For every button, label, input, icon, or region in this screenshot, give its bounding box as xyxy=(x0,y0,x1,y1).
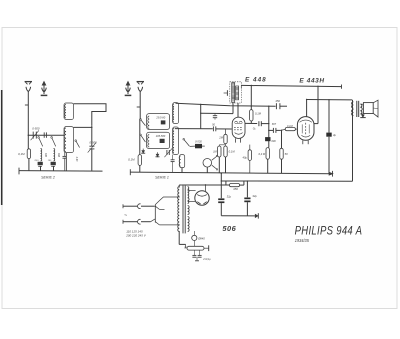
resistor 2M xyxy=(224,134,227,143)
wave switch S1a xyxy=(38,137,40,139)
wire antenna A2 down xyxy=(139,91,141,119)
svg-text:2×0,1μ: 2×0,1μ xyxy=(202,258,211,261)
wire into heater resistor xyxy=(185,244,187,248)
wire coil101 to bus xyxy=(181,168,183,173)
V2 pins xyxy=(302,140,304,144)
svg-text:SERIE 2: SERIE 2 xyxy=(41,175,55,179)
resistor 0,1M bias xyxy=(224,146,227,157)
capacitor 4u tone xyxy=(326,133,331,137)
svg-text:E 448: E 448 xyxy=(245,76,267,83)
svg-text:40μ: 40μ xyxy=(243,155,248,159)
ground arrow g2 xyxy=(157,152,159,156)
resistor 0,1M (aerial leak) xyxy=(27,149,30,159)
V1 cathode xyxy=(235,133,243,135)
aerial coil L3 upper xyxy=(64,103,74,120)
aerial coil L4 lower xyxy=(64,127,74,153)
core mark box2 xyxy=(160,139,165,143)
wire tuning cap to bus xyxy=(91,126,93,146)
svg-text:636: 636 xyxy=(44,153,47,158)
speaker cone xyxy=(373,100,378,117)
svg-text:200 220 245 V: 200 220 245 V xyxy=(125,234,147,238)
wire transformer bottom lead xyxy=(178,231,180,244)
wire 0,4M to bus xyxy=(267,159,269,173)
power transformer secondary xyxy=(188,187,189,204)
wire antenna lead to resistor xyxy=(27,135,29,149)
speaker magnet xyxy=(363,103,373,114)
capacitor 32u no2 xyxy=(244,198,250,200)
antenna socket A1 xyxy=(25,81,32,83)
svg-text:600: 600 xyxy=(272,140,277,143)
tuning coil column lower xyxy=(173,127,179,155)
iron core L1 xyxy=(38,162,43,165)
wave switch S2a xyxy=(140,119,142,121)
bus end connector xyxy=(332,171,334,177)
junction link xyxy=(219,144,225,146)
svg-text:4-90: 4-90 xyxy=(75,157,78,162)
capacitor on avc line xyxy=(213,115,217,117)
ground arrow g1 xyxy=(142,149,144,153)
coil 101 xyxy=(180,155,185,168)
wire avc line xyxy=(201,112,233,114)
wire V1 anode xyxy=(245,122,257,124)
output transformer secondary xyxy=(360,104,362,114)
resistor 40u cathode xyxy=(248,150,251,161)
wire secondary to 506 lower xyxy=(188,200,196,202)
power transformer core xyxy=(182,186,184,234)
tuning coil column upper xyxy=(173,103,179,124)
svg-text:506: 506 xyxy=(222,224,236,233)
antenna socket A2 xyxy=(137,81,144,83)
capacitor 50 series xyxy=(212,126,214,131)
svg-text:29,5: 29,5 xyxy=(33,160,39,162)
resistor 0,4M xyxy=(266,148,269,160)
wire 0,1Mb to bus xyxy=(225,157,227,173)
power transformer primary xyxy=(178,187,180,232)
scan artifact line (page edge) xyxy=(1,90,3,205)
capacitor 600 (block) xyxy=(265,137,270,141)
capacitor 32u no1 xyxy=(218,198,224,200)
wire HT line lower (y185) xyxy=(182,184,230,186)
wire resistor to bus xyxy=(28,159,30,171)
wire 506 top xyxy=(205,185,207,191)
trimmer capacitor on aerial wire xyxy=(43,132,45,137)
capacitor Gr (anode coupling) xyxy=(258,121,260,126)
svg-text:0-500: 0-500 xyxy=(32,127,40,131)
svg-text:Gr,: Gr, xyxy=(253,127,257,130)
wire cap1 to ground rail xyxy=(220,203,222,216)
svg-text:0,1M: 0,1M xyxy=(128,157,135,161)
V2 top dome xyxy=(300,120,312,122)
wire circle to bus xyxy=(206,167,208,173)
rectifier tube 506 xyxy=(195,191,209,205)
svg-text:2M: 2M xyxy=(218,136,223,140)
resistor 0,1M anode load xyxy=(250,110,253,121)
IF trimmer xyxy=(224,92,228,94)
V1 grid dashes xyxy=(234,126,242,128)
wire HT screen line (y86) xyxy=(241,85,341,86)
svg-text:32μ: 32μ xyxy=(227,194,232,198)
wire to resistor 50 xyxy=(281,130,283,148)
iron core L2 xyxy=(51,162,56,165)
wire coil L4 top tap xyxy=(74,126,92,128)
variable capacitor gang2 xyxy=(166,150,168,155)
wire tone cap line xyxy=(328,100,330,133)
wire coil L3 top to tuning line (Z-step) xyxy=(74,104,107,126)
output transformer primary xyxy=(352,102,354,108)
wire grid line top xyxy=(176,103,276,106)
connector tick on antenna lead xyxy=(25,104,28,106)
oscillator coil box 29,5-80 xyxy=(147,114,170,130)
wire secondary to 506 upper xyxy=(188,190,196,192)
svg-text:0,4 M: 0,4 M xyxy=(258,152,265,156)
svg-text:807: 807 xyxy=(272,123,277,126)
coil L2 (band B) xyxy=(54,149,55,162)
dial lamp O840 xyxy=(192,235,197,240)
wire cap to node xyxy=(261,123,269,125)
svg-text:195-580: 195-580 xyxy=(156,134,166,138)
svg-text:SERIE 1: SERIE 1 xyxy=(155,176,169,180)
V1 pins xyxy=(234,138,236,142)
variable capacitor 0-500 (tuning gang 1) xyxy=(89,145,94,147)
wire AF node vertical xyxy=(268,106,270,147)
resistor heater dropper xyxy=(187,246,204,250)
506 anode cup xyxy=(197,195,207,197)
earth socket E2 xyxy=(127,84,129,94)
capacitor 807 series xyxy=(272,128,274,133)
wire cap2 to ground rail xyxy=(246,202,248,216)
wire HT rail upper (y181) xyxy=(221,180,352,182)
svg-text:PHILIPS 944 A: PHILIPS 944 A xyxy=(295,225,363,238)
IF transformer shield box (dashed) xyxy=(230,82,242,103)
wire HT riser to output transformer xyxy=(352,100,354,115)
core mark box1 xyxy=(161,120,166,124)
wave switch S1b xyxy=(51,137,53,139)
oscillator coil box 195-580 xyxy=(147,132,170,148)
ground bus SERIE 2 xyxy=(19,170,103,173)
title PHILIPS 944 A xyxy=(295,225,363,238)
variable capacitor 0-500 (aerial trim) xyxy=(32,132,34,139)
svg-text:0,1M: 0,1M xyxy=(18,152,25,156)
trimmer capacitor C-trim xyxy=(63,155,67,157)
wire speaker top xyxy=(361,103,364,105)
chassis arrow xyxy=(255,215,257,217)
V1 screen structure xyxy=(234,121,242,122)
PSU ground rail xyxy=(221,215,255,217)
mains lead 1 xyxy=(123,205,137,207)
wire resistor to bus s1 xyxy=(139,165,141,172)
wire IF secondary to V1 grid cap xyxy=(237,103,239,118)
wire HT drop cap2 xyxy=(246,181,248,197)
wire 1M to bus xyxy=(218,157,220,173)
subtitle 1934/35 xyxy=(295,237,310,242)
coil L1 (band A) xyxy=(41,149,42,162)
IF primary winding xyxy=(232,83,235,103)
output transformer core xyxy=(356,101,358,117)
svg-text:450: 450 xyxy=(275,99,280,103)
svg-text:Ø840: Ø840 xyxy=(197,236,205,240)
svg-text:0-530: 0-530 xyxy=(195,140,202,144)
selector tap mid xyxy=(159,208,164,210)
mains lead 2 xyxy=(123,221,137,223)
V2 cathode xyxy=(301,135,310,137)
earth socket E1 xyxy=(43,84,45,94)
oscillator padding circle xyxy=(203,159,212,168)
resistor 450 smoothing xyxy=(229,184,239,187)
V2 grid column xyxy=(305,123,307,134)
padder capacitor 0-530 xyxy=(195,144,202,148)
resistor 0,1M grid leak xyxy=(138,155,141,166)
selector tap top xyxy=(155,197,180,205)
ground under output transformer xyxy=(362,114,364,116)
tube V1 E448 envelope xyxy=(232,117,245,138)
wire dropper out xyxy=(204,247,209,249)
svg-text:50: 50 xyxy=(285,152,288,156)
IF secondary winding xyxy=(236,86,239,100)
svg-text:695: 695 xyxy=(57,153,60,158)
wire antenna A1 down xyxy=(27,91,29,135)
svg-text:E 443H: E 443H xyxy=(299,77,324,84)
plug contact 1 xyxy=(138,204,141,209)
switch S2c xyxy=(184,140,190,147)
svg-text:0,1M: 0,1M xyxy=(255,112,262,116)
svg-text:0,1M: 0,1M xyxy=(229,149,236,153)
506 filament marks xyxy=(197,202,206,204)
svg-text:32μ: 32μ xyxy=(252,194,257,198)
switch S1c xyxy=(75,140,77,142)
wire screen drop xyxy=(317,86,319,123)
capacitor pair 2x heater bypass xyxy=(192,254,196,256)
wire anode res bottom xyxy=(250,121,252,124)
svg-text:0,1M: 0,1M xyxy=(287,125,293,128)
selector tap bottom xyxy=(159,224,179,226)
wire primary top to HT line xyxy=(178,185,180,188)
wire HT to anode resistor xyxy=(250,86,252,110)
wire coil L4 to bus xyxy=(65,153,67,171)
wire osc tap vertical xyxy=(200,105,202,129)
junction dots xyxy=(251,105,252,106)
wire r50 to bus xyxy=(281,159,283,173)
resistor 50 xyxy=(280,148,283,159)
wire bus drop to PSU xyxy=(220,173,222,198)
svg-text:29,5-80: 29,5-80 xyxy=(155,115,165,119)
svg-text:0-500: 0-500 xyxy=(89,140,97,144)
capacitor 450 coupling xyxy=(275,103,277,109)
ground bus SERIE 1 / main chassis bus xyxy=(130,172,332,174)
tube V2 E443H envelope xyxy=(297,117,314,141)
plug contact 2 xyxy=(138,219,141,224)
wire speaker bottom xyxy=(361,113,364,115)
voltage selector xyxy=(154,205,156,223)
svg-text:450: 450 xyxy=(233,187,238,191)
svg-text:1934/35: 1934/35 xyxy=(295,237,310,242)
trimmer under coil column xyxy=(171,159,175,161)
wire 450 to riser xyxy=(240,184,244,186)
wire IF box to avc xyxy=(232,103,234,114)
wire V2 anode to output xyxy=(306,100,308,117)
resistor 1M xyxy=(218,146,221,157)
wire grid coupling (to V1 grid circuit) xyxy=(175,128,213,130)
wire L1 to bus xyxy=(40,166,42,171)
switch contacts at circle xyxy=(212,156,217,160)
wire L2 to bus xyxy=(53,166,55,171)
wire aerial input horizontal xyxy=(28,134,64,136)
wave switch S2b xyxy=(140,134,142,136)
connector tick A2 xyxy=(137,106,141,108)
svg-text:~: ~ xyxy=(124,213,127,219)
resistor 0,1M grid stopper xyxy=(285,128,295,131)
